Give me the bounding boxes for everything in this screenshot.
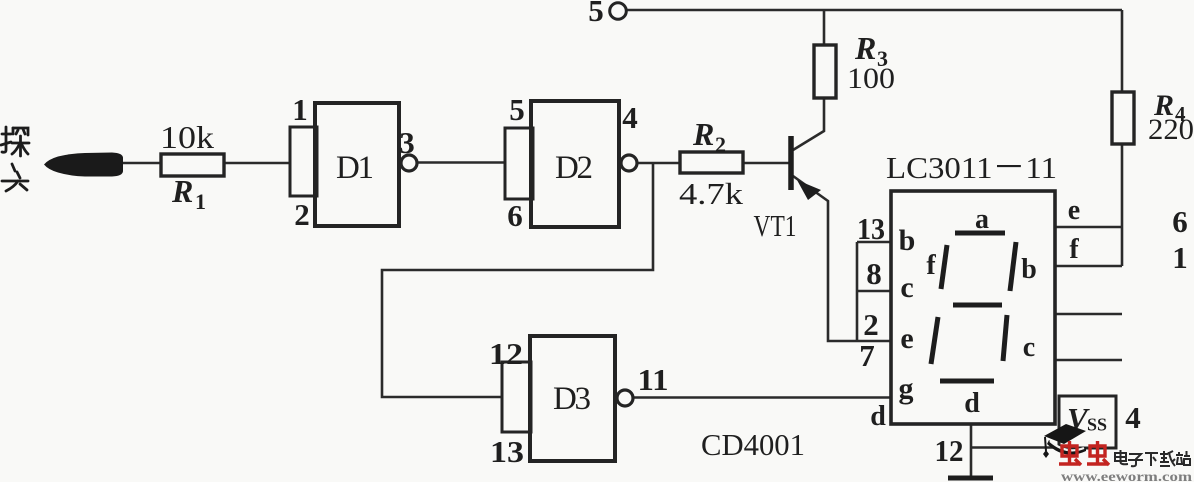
svg-text:4: 4 (622, 100, 638, 135)
svg-text:LC3011－11: LC3011－11 (886, 150, 1057, 185)
svg-text:R: R (171, 173, 193, 209)
svg-text:CD4001: CD4001 (701, 427, 805, 462)
svg-text:6: 6 (507, 198, 523, 233)
svg-text:SS: SS (1087, 415, 1107, 435)
svg-text:6: 6 (1172, 204, 1188, 239)
svg-text:100: 100 (847, 62, 895, 95)
svg-text:D3: D3 (553, 381, 591, 417)
svg-text:c: c (900, 271, 913, 304)
svg-text:5: 5 (509, 92, 525, 127)
svg-text:10k: 10k (160, 119, 214, 155)
svg-text:f: f (926, 250, 936, 281)
svg-text:12: 12 (489, 336, 523, 371)
svg-text:R: R (692, 116, 714, 152)
svg-text:e: e (900, 322, 913, 355)
svg-text:www.eeworm.com: www.eeworm.com (1061, 469, 1193, 482)
svg-text:a: a (975, 204, 989, 235)
svg-text:c: c (1023, 332, 1035, 363)
svg-text:d: d (870, 401, 886, 432)
svg-text:D2: D2 (555, 150, 593, 186)
svg-text:5: 5 (588, 0, 604, 28)
svg-text:13: 13 (857, 211, 885, 246)
svg-text:2: 2 (863, 307, 879, 342)
svg-text:4: 4 (1125, 400, 1141, 435)
svg-text:3: 3 (399, 125, 415, 160)
svg-text:b: b (1021, 254, 1037, 285)
svg-text:D1: D1 (336, 150, 374, 186)
svg-text:4.7k: 4.7k (679, 176, 744, 211)
svg-text:VT1: VT1 (754, 208, 797, 243)
svg-text:b: b (899, 224, 916, 257)
svg-text:1: 1 (1172, 240, 1188, 275)
svg-text:1: 1 (292, 92, 308, 127)
svg-text:11: 11 (638, 362, 669, 397)
svg-text:8: 8 (866, 256, 882, 291)
svg-text:f: f (1069, 234, 1079, 265)
svg-text:R: R (854, 30, 876, 66)
svg-text:13: 13 (490, 434, 524, 469)
svg-text:g: g (899, 372, 914, 405)
svg-text:1: 1 (195, 189, 206, 214)
svg-text:12: 12 (935, 433, 964, 468)
svg-text:7: 7 (859, 338, 875, 373)
svg-text:2: 2 (294, 197, 310, 232)
svg-text:e: e (1068, 195, 1080, 226)
svg-text:2: 2 (715, 132, 726, 157)
svg-text:d: d (964, 388, 980, 419)
svg-text:220: 220 (1148, 113, 1194, 146)
